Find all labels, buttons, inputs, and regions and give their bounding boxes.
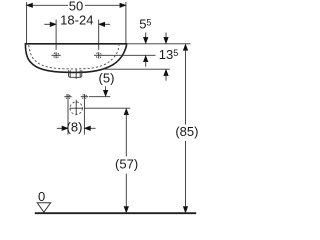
svg-text:(5): (5) [99,71,115,86]
svg-text:50: 50 [69,0,83,13]
svg-text:0: 0 [38,189,45,204]
svg-text:135: 135 [159,47,178,62]
svg-text:55: 55 [139,16,151,31]
svg-text:(57): (57) [115,156,138,171]
svg-text:18-24: 18-24 [60,13,93,28]
svg-text:(8): (8) [67,120,83,135]
svg-text:(85): (85) [175,124,198,139]
